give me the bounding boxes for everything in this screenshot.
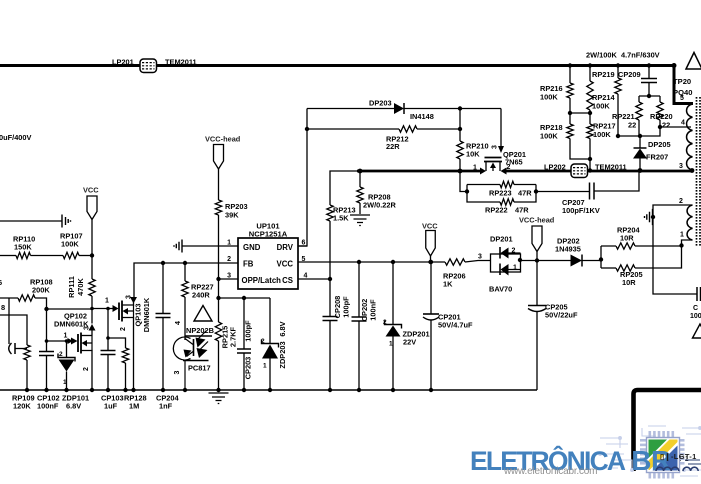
svg-text:1N4935: 1N4935 [555, 245, 581, 254]
resistor RP218 100K [540, 113, 590, 159]
node divider top [90, 253, 94, 257]
svg-text:1: 1 [64, 333, 68, 340]
svg-text:2: 2 [59, 351, 63, 358]
transformer TP201 core [673, 77, 700, 246]
svg-text:DMN601K: DMN601K [54, 320, 89, 329]
svg-text:DP203: DP203 [369, 99, 392, 108]
resistor RP110 150K [0, 235, 63, 259]
label L-LGT-1 [654, 454, 689, 463]
node CP209 bottom [647, 94, 651, 98]
resistor RP219 2W/100K [586, 51, 621, 137]
wire pin3 column [218, 279, 220, 298]
wire aux pin2 [653, 205, 697, 294]
wire pin3 OPP [219, 278, 239, 280]
resistor RP109 120K [0, 315, 35, 411]
svg-text:ZDP203: ZDP203 [278, 341, 287, 368]
capacitor CP204 1nF [156, 263, 180, 411]
node DP202 out [599, 257, 603, 261]
svg-text:CP203: CP203 [244, 357, 253, 380]
wire gate node drop [460, 171, 467, 192]
capacitor CP101 electrolytic [0, 133, 32, 354]
node CP102 link [44, 307, 48, 311]
svg-text:8: 8 [1, 303, 5, 312]
transistor QP103 DMN601K [105, 295, 151, 390]
resistor RP223 47R [467, 181, 536, 197]
node pin3 junction [216, 277, 220, 281]
transistor QP102 DMN601K [54, 312, 92, 391]
ground RP208 [350, 215, 370, 226]
node drive net top [458, 106, 462, 110]
node box left [465, 189, 469, 193]
svg-text:10K: 10K [466, 150, 480, 159]
node aux chassis [651, 215, 655, 219]
svg-text:22: 22 [662, 121, 670, 130]
capacitor CP206 edge [690, 287, 701, 320]
zener ZDP203 6.8V [261, 298, 287, 390]
svg-text:50V/4.7uF: 50V/4.7uF [438, 321, 473, 330]
wire CS sense line thin [330, 171, 358, 205]
svg-text:1: 1 [389, 341, 393, 348]
ground chassis left [0, 215, 71, 228]
zener ZDP201 22V [383, 262, 430, 390]
wire RP221-RP220 top link [639, 95, 660, 97]
svg-text:1nF: 1nF [159, 402, 173, 411]
watermark chip logo [636, 426, 688, 484]
svg-text:1K: 1K [443, 280, 453, 289]
node aux pin1 [680, 244, 682, 246]
svg-text:39K: 39K [225, 211, 239, 220]
ground main [209, 393, 229, 404]
wire QP103 gate [92, 308, 113, 310]
node RP210 bottom [458, 169, 463, 174]
diode DP201 BAV70 [465, 235, 537, 294]
watermark part number label [660, 452, 697, 461]
node VCC-head out [535, 258, 539, 262]
node RP111 gate tap [90, 307, 94, 311]
svg-text:2.7KF: 2.7KF [229, 326, 238, 347]
svg-text:22R: 22R [386, 142, 400, 151]
warning triangle bottom right [693, 324, 701, 338]
node RP219 bottom [616, 134, 620, 138]
wire chain link [570, 112, 590, 114]
svg-text:CS: CS [282, 276, 293, 285]
node RP216-RP218 [568, 111, 572, 115]
wire bottom ground rail [0, 389, 537, 391]
svg-text:2: 2 [83, 367, 90, 371]
node transformer pin3 [690, 168, 695, 173]
wire pin6 stub [298, 245, 307, 247]
svg-text:6: 6 [0, 278, 2, 287]
transformer aux winding 2-1 [679, 198, 693, 240]
svg-text:3: 3 [478, 254, 482, 261]
resistor RP227 240R [182, 263, 214, 334]
wire pin4 CS [298, 278, 330, 280]
svg-text:RP223: RP223 [489, 189, 512, 198]
node rail junctions [25, 388, 433, 392]
svg-text:2: 2 [261, 338, 265, 345]
svg-text:DMN601K: DMN601K [142, 297, 151, 332]
svg-text:7N65: 7N65 [505, 158, 523, 167]
resistor RP220 22 [618, 96, 673, 136]
node RP217 to TEM line [588, 168, 592, 172]
svg-text:FR207: FR207 [646, 153, 668, 162]
svg-text:47R: 47R [518, 189, 532, 198]
svg-text:100K: 100K [593, 130, 611, 139]
svg-text:100pF: 100pF [244, 320, 253, 342]
label net 6 [0, 278, 2, 287]
node pin4 junction [328, 277, 332, 281]
svg-text:100K: 100K [61, 240, 79, 249]
node VCC ZDP201 [391, 260, 395, 264]
resistor RP212 22R [307, 126, 460, 151]
svg-text:3: 3 [679, 163, 683, 170]
svg-text:4: 4 [175, 321, 182, 325]
svg-text:VCC: VCC [277, 260, 294, 269]
svg-text:2: 2 [383, 319, 387, 326]
wire transformer pin4 tap [660, 126, 691, 128]
resistor RP213 1.5K [327, 205, 356, 279]
transistor QP201 7N65 [473, 109, 526, 175]
wire box to CP207 [536, 191, 590, 193]
svg-text:100pF: 100pF [342, 296, 351, 318]
svg-text:100K: 100K [592, 102, 610, 111]
ground chassis pin1 [174, 240, 182, 253]
wire main HV bus right segment to transformer pin 5 [157, 66, 694, 104]
wire DRV pin6 riser [298, 109, 307, 247]
svg-text:DRV: DRV [277, 243, 294, 252]
wire source thick line TEM2011 [505, 170, 692, 173]
label net 8 [1, 303, 5, 312]
power VCC arrow mid [422, 222, 438, 265]
node RP208 tap [358, 169, 363, 174]
resistor RP217 100K [587, 113, 616, 171]
svg-text:3: 3 [126, 295, 133, 299]
capacitor CP201 50V/4.7uF [423, 262, 473, 390]
node ZDP101 tap [65, 339, 69, 343]
svg-text:1: 1 [513, 265, 517, 272]
svg-text:5: 5 [680, 95, 684, 102]
svg-text:DP205: DP205 [648, 140, 671, 149]
svg-text:1: 1 [63, 379, 67, 386]
wire heavy box outline [634, 390, 701, 471]
wire gate thick line [357, 170, 481, 173]
warning triangle top right [686, 53, 701, 70]
diode DP202 1N4935 [537, 237, 601, 267]
svg-text:PC817: PC817 [188, 364, 211, 373]
svg-text:1: 1 [473, 165, 477, 172]
wire pin5 VCC rail [298, 261, 445, 263]
svg-text:120K: 120K [13, 402, 31, 411]
wire main HV bus left segment [0, 64, 140, 67]
svg-text:50V/22uF: 50V/22uF [545, 311, 578, 320]
svg-text:OPP/Latch: OPP/Latch [242, 276, 282, 285]
resistor RP128 1M [108, 338, 147, 411]
inductor LP202 ferrite bead [544, 163, 627, 178]
capacitor CP102 100nF [37, 309, 60, 411]
svg-text:FB: FB [243, 260, 254, 269]
warning triangle NP202B [186, 306, 214, 336]
svg-text:2: 2 [679, 198, 683, 205]
diode DP205 FR207 [633, 136, 671, 171]
resistor RP203 39K [215, 180, 247, 279]
capacitor CP103 1uF [101, 307, 124, 411]
node box right [534, 189, 538, 193]
svg-text:1: 1 [680, 232, 684, 239]
svg-text:VCC-head: VCC-head [519, 216, 555, 225]
node OPP net [216, 296, 220, 300]
svg-text:VCC: VCC [83, 186, 99, 195]
resistor RP206 1K [443, 259, 466, 289]
svg-text:100pF/1KV: 100pF/1KV [562, 206, 600, 215]
capacitor CP205 50V/22uF [528, 261, 578, 391]
svg-text:3: 3 [492, 145, 499, 149]
resistor RP216 100K [540, 66, 573, 114]
resistor RP210 10K [457, 109, 489, 172]
svg-text:1M: 1M [129, 402, 139, 411]
svg-text:2: 2 [227, 256, 231, 263]
svg-text:100nF: 100nF [369, 299, 378, 321]
resistor RP214 100K [587, 66, 616, 114]
node bus junction RP216 [568, 63, 572, 67]
svg-text:240R: 240R [192, 291, 210, 300]
node drive net mid [458, 127, 462, 131]
svg-text:1: 1 [105, 298, 109, 305]
svg-text:6.8V: 6.8V [278, 321, 287, 336]
svg-text:470K: 470K [76, 278, 85, 296]
node DP203 branch [305, 127, 309, 131]
node RP214-RP217 [588, 111, 592, 115]
svg-text:TP20: TP20 [673, 77, 691, 86]
svg-text:100: 100 [690, 313, 701, 320]
node bus junction RP219 [616, 63, 620, 67]
svg-text:22: 22 [628, 121, 636, 130]
svg-text:RP219: RP219 [592, 70, 615, 79]
svg-text:10R: 10R [620, 234, 634, 243]
ground chassis aux [645, 209, 653, 225]
resistor RP108 200K [0, 278, 53, 310]
node RP220 pin4 [658, 125, 662, 129]
node FB RP227 [183, 261, 187, 265]
node DP205 top [638, 134, 642, 138]
node gate CP102 [45, 339, 49, 343]
svg-text:LP201: LP201 [112, 58, 134, 67]
resistor RP107 100K [60, 232, 92, 259]
wire OPP net to zener [219, 297, 271, 299]
watermark coil doodle [654, 457, 701, 479]
resistor RP215 2.7KF [215, 298, 237, 390]
svg-text:GND: GND [243, 243, 261, 252]
svg-text:200K: 200K [32, 286, 50, 295]
resistor RP111 470K [67, 256, 95, 310]
svg-text:4.7nF/630V: 4.7nF/630V [621, 51, 660, 60]
wire pin1 GND [182, 245, 238, 247]
svg-text:1: 1 [263, 363, 267, 370]
node RP217 bottom [588, 157, 592, 161]
wire aux pin1 [682, 240, 693, 246]
svg-text:CP209: CP209 [618, 70, 641, 79]
capacitor CP208 100pF [323, 279, 351, 390]
node bus corner [672, 63, 677, 68]
diode DP203 IN4148 [307, 99, 501, 122]
node bus junction RP214 [588, 63, 592, 67]
capacitor CP207 100pF/1KV [562, 171, 639, 215]
wire QP102 gate [47, 338, 74, 344]
zener ZDP101 6.8V [58, 341, 89, 411]
resistor RP208 2W/0.22R [357, 171, 397, 214]
wire cross link [47, 308, 93, 310]
svg-text:2: 2 [120, 327, 127, 331]
svg-text:22V: 22V [403, 338, 416, 347]
resistor RP205 10R [601, 246, 682, 288]
resistor RP204 10R [601, 226, 682, 269]
svg-text:RP222: RP222 [485, 206, 508, 215]
svg-text:6.8V: 6.8V [66, 402, 81, 411]
inductor LP201 ferrite bead [112, 58, 197, 73]
svg-text:2: 2 [512, 248, 516, 255]
svg-text:VCC-head: VCC-head [205, 135, 241, 144]
svg-text:1.5K: 1.5K [333, 214, 349, 223]
svg-text:RP111: RP111 [67, 276, 76, 298]
svg-text:10R: 10R [622, 278, 636, 287]
svg-text:2W/0.22R: 2W/0.22R [363, 201, 397, 210]
svg-text:1uF: 1uF [104, 402, 118, 411]
svg-text:VCC: VCC [422, 222, 438, 231]
optocoupler NP202B PC817 [173, 321, 212, 390]
svg-text:100K: 100K [540, 132, 558, 141]
wire QP102 drain riser [89, 309, 96, 336]
capacitor CP202 100nF [352, 262, 378, 390]
power VCC-head arrow 2 [519, 216, 555, 261]
wire pin2 FB [134, 263, 238, 297]
svg-text:100nF: 100nF [37, 402, 59, 411]
svg-text:BAV70: BAV70 [489, 285, 512, 294]
svg-text:NCP1251A: NCP1251A [249, 230, 288, 239]
transformer primary winding 5-3 [679, 95, 693, 170]
node DP205 anode [638, 168, 643, 173]
capacitor CP203 100pF [237, 298, 253, 390]
power VCC-head arrow 1 [205, 135, 241, 181]
op-amp U1 UP101 NCP1251A controller [227, 222, 307, 290]
svg-text:TEM2011: TEM2011 [595, 163, 627, 172]
svg-text:NP202B: NP202B [186, 326, 214, 335]
watermark circuit doodles [598, 424, 701, 482]
svg-text:3: 3 [174, 370, 181, 374]
svg-text:150K: 150K [14, 243, 32, 252]
svg-text:4: 4 [681, 120, 685, 127]
svg-text:LP202: LP202 [544, 163, 566, 172]
node bus junction CP209 [647, 63, 651, 67]
watermark brand text [470, 445, 671, 477]
svg-text:100K: 100K [540, 93, 558, 102]
svg-text:C: C [693, 305, 698, 312]
capacitor CP209 4.7nF/630V [618, 51, 660, 97]
resistor RP221 22 [612, 96, 642, 136]
svg-text:IN4148: IN4148 [410, 112, 434, 121]
svg-text:DP201: DP201 [490, 235, 513, 244]
svg-text:2W/100K: 2W/100K [586, 51, 617, 60]
node RP204 right [679, 243, 683, 247]
svg-text:0uF/400V: 0uF/400V [0, 133, 32, 142]
node VCC CP201 [429, 260, 433, 264]
resistor RP222 47R [467, 185, 536, 215]
node VCC CP202 [357, 260, 361, 264]
node CP203 top [242, 296, 246, 300]
power VCC arrow left [83, 186, 99, 256]
node FB CP204 [161, 261, 165, 265]
svg-text:47R: 47R [515, 206, 529, 215]
